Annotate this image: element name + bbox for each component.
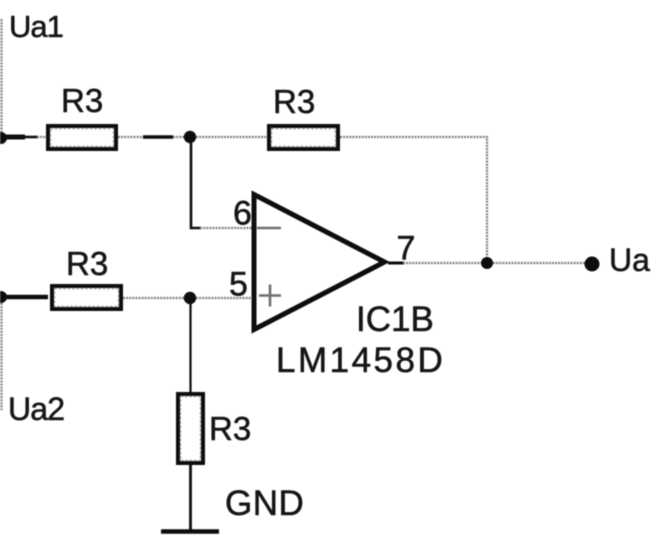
wire output to terminal [493, 262, 586, 264]
wire pin 7 stub [388, 262, 404, 265]
wire R5 to ground [189, 465, 192, 531]
op-amp IC1B triangle [254, 195, 385, 330]
wire black segment [143, 135, 173, 138]
svg-text:Ua: Ua [609, 242, 650, 278]
svg-text:6: 6 [233, 195, 252, 233]
node Ua terminal [585, 257, 600, 272]
wire Ua1 terminal stub [0, 135, 25, 140]
svg-text:R3: R3 [66, 245, 108, 282]
wire pin 6 net [200, 227, 252, 229]
wire net Ua1 vertical [0, 19, 2, 134]
ground [161, 529, 219, 534]
node junction non-inverting net [184, 292, 196, 304]
svg-text:GND: GND [225, 484, 304, 523]
wire R4 to junction [123, 297, 186, 299]
op-amp plus input mark [259, 285, 281, 307]
wire net to R1 [37, 136, 47, 138]
wire dashes to junction [173, 136, 186, 138]
svg-text:LM1458D: LM1458D [276, 341, 445, 380]
resistor R2 body (feedback) [269, 126, 338, 149]
resistor R1 body [48, 126, 116, 149]
wire Ua2 terminal stub [0, 295, 48, 300]
resistor R4 body [52, 286, 121, 309]
svg-text:Ua1: Ua1 [9, 9, 63, 44]
wire junction down to pin 6 [191, 143, 201, 228]
svg-text:R3: R3 [273, 83, 315, 120]
node output junction [481, 257, 493, 269]
wire R2 to feedback corner [340, 137, 487, 258]
svg-text:IC1B: IC1B [356, 300, 434, 339]
node Ua1 terminal [0, 132, 7, 144]
wire R1 to junction [118, 136, 144, 138]
svg-text:R3: R3 [61, 82, 103, 119]
resistor R5 body (vertical) [178, 394, 203, 463]
svg-text:Ua2: Ua2 [8, 391, 64, 427]
wire junction to pin 5 [196, 297, 252, 299]
svg-text:R3: R3 [209, 410, 251, 447]
node Ua2 terminal [0, 291, 7, 303]
wire net Ua2 vertical [0, 303, 2, 410]
node junction inverting net [184, 131, 196, 143]
wire junction down to R5 [189, 304, 191, 393]
wire pin 7 net [403, 262, 483, 264]
wire junction to R2 [196, 136, 268, 138]
op-amp minus input mark [257, 227, 281, 230]
